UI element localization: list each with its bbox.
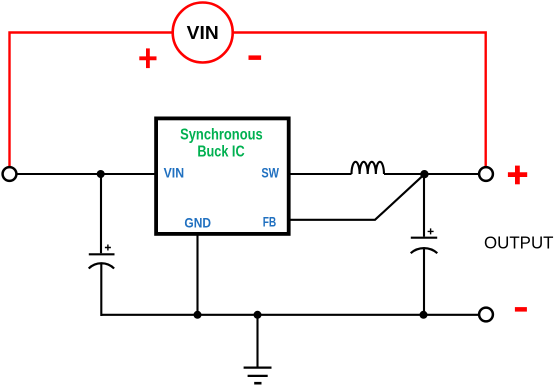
label: + (source positive, red) [139,48,156,68]
wire: input terminal to VIN pin [17,173,157,175]
wire: SW pin to inductor [289,173,352,175]
svg-text:Buck IC: Buck IC [197,144,245,161]
svg-text:SW: SW [261,165,279,180]
inductor L1 [352,162,384,174]
terminal: input (open circle) [3,167,17,181]
wire: FB feedback from box to SW output node [289,174,424,220]
node: ground symbol junction on bus [254,311,262,319]
IC U1 box [156,118,289,233]
svg-text:VIN: VIN [164,165,185,180]
svg-text:FB: FB [263,214,277,229]
label: - (source negative, red) [249,55,262,60]
svg-text:OUTPUT: OUTPUT [484,233,554,253]
node: SW output junction [420,170,428,178]
wire: red lead from source + down to input terminal [10,33,172,167]
source VIN (circle) [173,3,233,63]
wire: input node down to input capacitor [100,175,102,254]
label: - (output negative, red) [515,307,527,312]
node: output cap junction on bus [420,311,428,319]
label: + (output positive, red) [508,166,527,185]
terminal: output - (open circle) [479,308,493,322]
wire: GND pin down to ground bus [196,234,198,315]
terminal: output + (open circle) [479,167,493,181]
svg-text:GND: GND [184,216,211,231]
svg-text:Synchronous: Synchronous [180,126,263,143]
capacitor C1 (input, polarized) [89,245,115,317]
wire: SW output node down to output capacitor [423,175,425,237]
ground symbol [244,315,272,383]
wire: red lead from source - down to output + terminal [234,33,486,167]
node: input cap junction [97,170,105,178]
wire: inductor to output + terminal [384,173,479,175]
capacitor C2 (output, polarized) [411,228,438,316]
wire: ground bus (bottom rail) [101,314,479,316]
node: GND pin junction on bus [194,311,202,319]
svg-text:VIN: VIN [187,22,219,43]
